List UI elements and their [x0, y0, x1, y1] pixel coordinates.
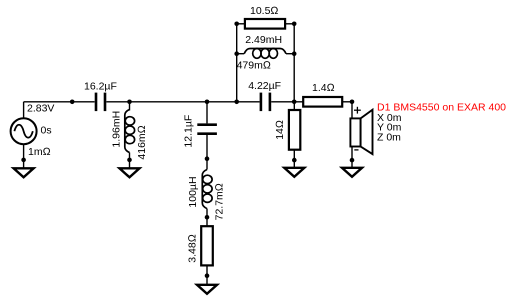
- svg-text:16.2µF: 16.2µF: [84, 80, 117, 92]
- wire lead left of resistor 10.5: [237, 23, 245, 25]
- node dot: [205, 215, 210, 220]
- ground below speaker: [342, 168, 362, 177]
- source circle: [11, 118, 37, 144]
- svg-text:2.83V: 2.83V: [27, 103, 54, 115]
- resistor 1.4 series: [303, 82, 342, 106]
- speaker horn: [361, 110, 373, 154]
- svg-text:14Ω: 14Ω: [274, 120, 286, 140]
- wire top lead: [129, 102, 131, 111]
- wire bottom lead: [293, 150, 295, 168]
- resistor 14 branch: [274, 102, 304, 177]
- wire bottom lead: [206, 265, 208, 284]
- svg-text:1.96mH: 1.96mH: [110, 111, 122, 148]
- speaker D1: [342, 102, 506, 177]
- wire bottom lead: [129, 153, 131, 169]
- svg-text:479mΩ: 479mΩ: [237, 60, 271, 72]
- svg-text:100µH: 100µH: [187, 176, 199, 207]
- svg-text:416mΩ: 416mΩ: [136, 125, 148, 159]
- capacitor plate right: [104, 93, 107, 112]
- coil 1.96mH: [125, 110, 135, 153]
- source sine wave: [14, 125, 32, 138]
- coil 100uH: [202, 170, 212, 209]
- wire left vertical rail: [236, 24, 238, 102]
- node dot network mid-left: [234, 51, 239, 56]
- node dot network bottom-left: [234, 100, 239, 105]
- wire source top lead: [23, 102, 25, 118]
- node dot rail x129.5: [127, 100, 132, 105]
- node dot: [292, 158, 297, 163]
- wire rail between C1 and C2: [106, 101, 259, 103]
- wire top lead: [206, 102, 208, 124]
- node dot: [127, 158, 132, 163]
- svg-text:2.49mH: 2.49mH: [245, 34, 282, 46]
- svg-text:1mΩ: 1mΩ: [28, 146, 51, 158]
- svg-text:Z 0m: Z 0m: [377, 131, 401, 143]
- resistor 10.5 body: [245, 19, 285, 29]
- node dot source bottom: [21, 158, 26, 163]
- wire rail right of C2 to R 1.4: [271, 101, 303, 103]
- source V1: [11, 102, 55, 178]
- svg-text:3.48Ω: 3.48Ω: [187, 234, 199, 263]
- plus sign: [354, 107, 361, 114]
- svg-text:12.1µF: 12.1µF: [182, 115, 194, 148]
- wire lead left of inductor 2.49mH: [237, 53, 245, 55]
- wire top lead: [206, 159, 208, 170]
- wire bottom lead: [351, 147, 353, 168]
- capacitor 12.1uF branch: [182, 102, 217, 161]
- capacitor plate top: [197, 123, 217, 126]
- resistor body: [289, 110, 300, 150]
- wire top lead: [293, 102, 295, 110]
- capacitor 16.2uF: [84, 80, 117, 111]
- node dot: [205, 273, 210, 278]
- wire lead right of resistor 10.5: [285, 23, 294, 25]
- svg-text:1.4Ω: 1.4Ω: [312, 82, 335, 94]
- inductor 100uH branch: [187, 159, 226, 221]
- svg-text:72.7mΩ: 72.7mΩ: [214, 183, 226, 220]
- speaker box: [350, 118, 360, 146]
- svg-text:4.22µF: 4.22µF: [248, 80, 281, 92]
- node dot speaker top: [350, 100, 355, 105]
- capacitor plate bottom: [197, 132, 217, 135]
- wire R1.4 to speaker: [342, 101, 352, 103]
- node dot network mid-right: [292, 51, 297, 56]
- ground below source: [14, 168, 34, 177]
- inductor 1.96mH branch: [110, 102, 148, 178]
- node dot: [350, 158, 355, 163]
- wire lead right of inductor 2.49mH: [286, 53, 294, 55]
- wire bottom lead: [206, 135, 208, 159]
- resistor 3.48 branch: [187, 217, 218, 293]
- capacitor 4.22uF plate right: [269, 93, 272, 112]
- node dot network top-right: [292, 22, 297, 27]
- ground below 14: [284, 168, 304, 177]
- node dot rail x207: [205, 100, 210, 105]
- wire bottom lead: [206, 209, 208, 218]
- resistor body: [201, 226, 213, 265]
- coil 2.49mH: [244, 49, 286, 59]
- svg-text:0s: 0s: [41, 125, 52, 137]
- wire top lead: [206, 217, 208, 226]
- node dot network top-left: [234, 22, 239, 27]
- wire right vertical rail: [293, 24, 295, 102]
- capacitor plate left: [95, 93, 98, 112]
- node dot: [205, 156, 210, 161]
- wire main rail left segment: [24, 101, 352, 103]
- minus sign: [354, 149, 358, 151]
- svg-text:10.5Ω: 10.5Ω: [250, 5, 279, 17]
- wire top lead: [351, 102, 353, 119]
- wire source bottom lead: [23, 144, 25, 168]
- capacitor 4.22uF plate left: [260, 93, 263, 112]
- ground below 3.48: [197, 285, 217, 294]
- ground below 1.96mH: [120, 168, 140, 177]
- node dot network bottom-right: [292, 100, 297, 105]
- node dot rail x72: [70, 100, 75, 105]
- parallel RLC network top: [234, 5, 296, 111]
